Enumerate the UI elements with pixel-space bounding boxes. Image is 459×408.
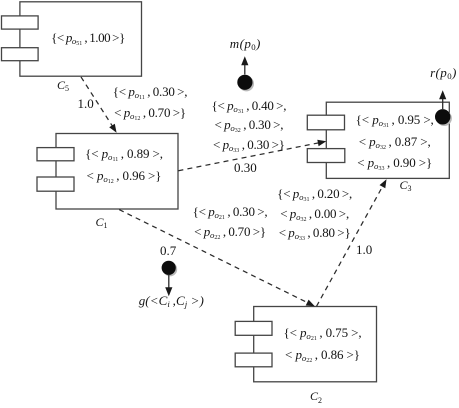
- component C5 box: [2, 2, 142, 76]
- label C3: [400, 179, 412, 191]
- arrowhead into C3 left port: [317, 140, 326, 147]
- label C5: [57, 79, 69, 91]
- component C2 box: [235, 307, 376, 382]
- ball g: [162, 261, 176, 275]
- label transition prob 0.30 on C1-C3: [234, 161, 257, 174]
- component C1 box: [37, 134, 178, 210]
- label C3 inner probabilities: [356, 109, 434, 174]
- label transition prob 1.0 on C5-C1: [78, 97, 94, 110]
- arrow up from r ball: [442, 97, 444, 109]
- label m(p0): [230, 37, 261, 50]
- label usage profile C1 to C2: [193, 202, 268, 243]
- wire dashed connector C5 to C1: [81, 77, 113, 127]
- label C1 inner probabilities: [85, 143, 163, 186]
- ball g shadow: [163, 262, 177, 276]
- label usage profile C2 to C3: [277, 184, 352, 243]
- wire dashed connector C1 to C2: [119, 210, 309, 304]
- label C1: [96, 216, 108, 228]
- label g(&lt;Ci,Cj&gt;): [139, 294, 204, 307]
- arrowhead into C3 bottom: [380, 179, 387, 188]
- label C2 inner probabilities: [283, 322, 361, 366]
- arrowhead into C2 top: [306, 300, 315, 307]
- ball m(p0) shadow: [239, 76, 254, 91]
- ball m(p0): [237, 75, 252, 90]
- label C5 inner probabilities: [51, 28, 125, 49]
- label r(p0): [430, 66, 457, 79]
- arrow up from m ball: [244, 63, 246, 74]
- label usage profile C1 to C3: [211, 96, 286, 154]
- ball r(p0) shadow: [437, 111, 452, 126]
- label usage profile C5 to C1: [113, 82, 188, 123]
- wire dashed connector C2 to C3: [317, 185, 384, 306]
- wire dashed connector C1 to C3: [178, 143, 320, 171]
- label transition prob 1.0 on C2-C3: [356, 243, 372, 256]
- arrow down from g ball: [168, 275, 170, 289]
- ball r(p0): [435, 109, 450, 124]
- label transition prob 0.7 on C1-C2: [160, 244, 176, 257]
- arrowhead into C1: [109, 124, 116, 133]
- component C3 box: [307, 102, 449, 178]
- label C2: [310, 390, 322, 402]
